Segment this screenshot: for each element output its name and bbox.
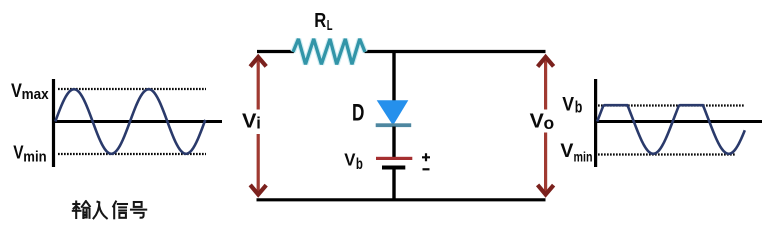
glyph 输: [73, 201, 90, 218]
input waveform: vertical axis: [52, 79, 55, 167]
input waveform: horizontal axis: [52, 120, 222, 123]
svg-text:V: V: [11, 81, 22, 102]
Vi measurement arrow (left, double-headed, red): [250, 57, 266, 195]
glyph 信: [113, 202, 127, 219]
circuit: bottom wire: [257, 198, 546, 201]
diode D triangle (anode): [377, 100, 409, 125]
battery Vb negative plate (black): [382, 166, 405, 170]
output waveform: Vb dotted level line: [598, 104, 745, 106]
svg-text:min: min: [23, 149, 46, 166]
battery plus sign: [422, 153, 430, 161]
svg-text:o: o: [544, 113, 555, 133]
output waveform: vertical axis: [594, 79, 597, 167]
Vo measurement arrow (right, double-headed, red): [538, 57, 554, 195]
input waveform: Vmax dotted level line: [58, 88, 206, 90]
svg-text:max: max: [22, 86, 50, 103]
resistor RL halo: [293, 39, 365, 64]
battery minus sign: [423, 168, 430, 170]
label 输入信号 (input signal) hand-drawn glyphs: [73, 201, 146, 218]
input waveform: sine wave trace: [55, 89, 205, 154]
glyph 号: [131, 202, 146, 218]
svg-text:D: D: [352, 100, 364, 127]
svg-text:V: V: [530, 110, 545, 133]
wire: battery to bottom wire: [392, 170, 395, 200]
output waveform: clipped sine trace: [597, 105, 745, 154]
label Vi: [241, 110, 262, 135]
diode D cathode bar: [376, 123, 412, 127]
input waveform: Vmin dotted level line: [58, 153, 206, 155]
svg-text:i: i: [256, 114, 261, 132]
circuit: top wire right segment: [365, 50, 546, 53]
resistor RL zigzag: [293, 39, 365, 64]
output waveform: horizontal axis: [594, 120, 762, 123]
battery Vb positive plate (red): [376, 157, 412, 160]
glyph 入: [94, 202, 107, 219]
output waveform: Vmin dotted level line: [598, 153, 736, 155]
svg-text:R: R: [314, 10, 326, 32]
svg-text:L: L: [327, 18, 333, 34]
svg-text:V: V: [560, 140, 573, 162]
svg-text:V: V: [562, 94, 574, 115]
wire: diode to battery: [392, 127, 395, 158]
svg-text:min: min: [574, 150, 593, 165]
svg-text:V: V: [242, 110, 257, 133]
circuit: top wire left segment: [257, 50, 294, 53]
label Vo: [529, 110, 555, 133]
svg-text:V: V: [344, 149, 355, 169]
node: middle branch wire (top section): [392, 52, 395, 102]
svg-text:b: b: [575, 97, 583, 116]
svg-text:b: b: [356, 156, 363, 173]
